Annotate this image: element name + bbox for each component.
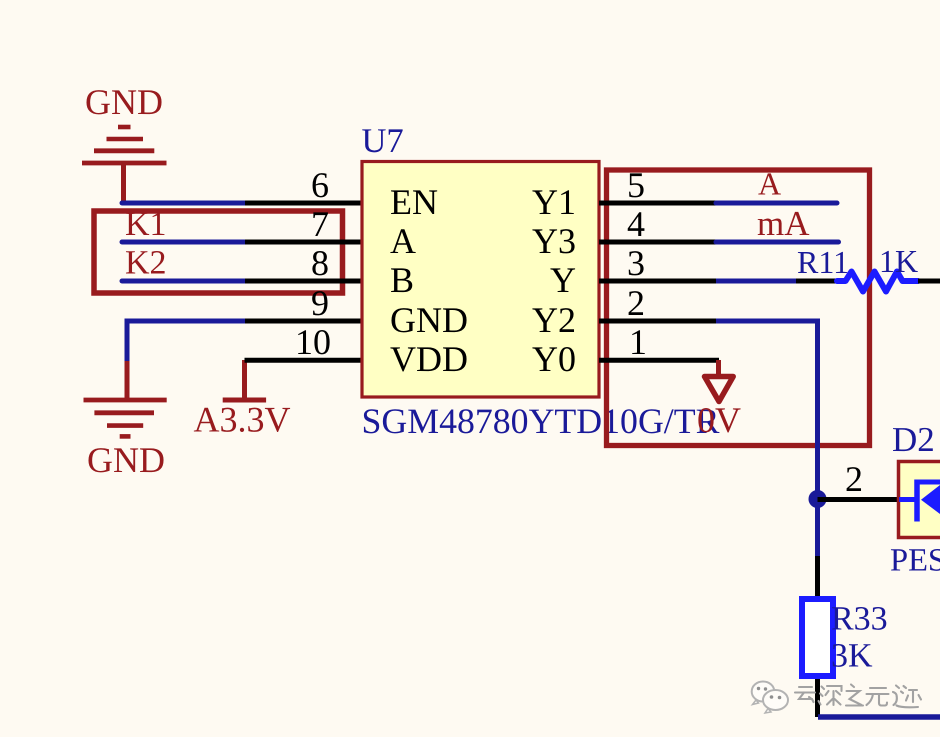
net class box around K1/K2 [94,211,343,293]
svg-text:A: A [758,166,781,202]
ground symbol GND (top-left) [82,127,167,203]
svg-text:9: 9 [311,283,329,323]
resistor R11 left lead [796,279,838,284]
power port 0V arrow symbol [705,360,734,402]
svg-text:3K: 3K [831,638,873,675]
diode D2 symbol [899,480,940,522]
junction dot [809,490,827,508]
svg-text:3: 3 [627,243,645,283]
pin 2 (Y2) black lead [599,319,716,324]
wire pin6 net blue segment [122,201,245,206]
diode D2 body [899,462,940,538]
svg-text:Y2: Y2 [532,300,576,340]
wire GND net vertical blue segment [125,319,130,364]
pin 8 (B) black lead [245,279,362,284]
svg-text:K2: K2 [125,245,167,282]
wire horizontal blue to vertical drop [716,319,818,324]
svg-text:0V: 0V [697,400,741,440]
svg-text:4: 4 [627,204,645,244]
wire black vertical through R33 [815,556,820,717]
wire net mA blue segment [716,240,839,245]
svg-text:EN: EN [390,182,438,222]
pin 9 (GND) black lead [245,319,362,324]
svg-text:SGM48780YTD10G/TR: SGM48780YTD10G/TR [362,401,720,441]
svg-text:PESD5V0: PESD5V0 [890,543,940,579]
resistor R11 zigzag [837,272,918,292]
wire black junction to D2 [818,497,898,502]
svg-text:GND: GND [390,300,468,340]
ground symbol GND (bottom-left) [84,361,167,436]
svg-text:5: 5 [627,165,645,205]
svg-text:Y0: Y0 [532,339,576,379]
pin 4 (Y3) black lead [599,240,716,245]
watermark text 云深之无迹 [795,685,921,708]
wire net A blue segment [716,201,837,206]
svg-text:Y3: Y3 [532,221,576,261]
svg-text:VDD: VDD [390,339,468,379]
svg-text:6: 6 [311,165,329,205]
resistor R33 body [802,599,833,676]
svg-text:1: 1 [629,322,647,362]
svg-text:GND: GND [87,440,165,480]
watermark logo [752,682,788,714]
pin 10 (VDD) black lead [245,358,363,363]
svg-text:10: 10 [295,322,331,362]
pin 1 (Y0) black lead [599,358,719,363]
svg-text:K1: K1 [125,206,167,243]
pin 5 (Y1) black lead [599,201,716,206]
svg-text:8: 8 [311,243,329,283]
IC U7 body [362,162,599,398]
pin 6 (EN) black lead [245,201,362,206]
svg-text:mA: mA [757,204,810,243]
svg-text:R33: R33 [831,601,888,638]
wire vertical blue down to junction [815,319,820,559]
svg-text:Y: Y [550,260,576,300]
wire to R11 blue segment [716,279,796,284]
wire GND net horizontal blue segment [127,319,245,324]
power port A3.3V symbol [223,360,266,400]
net class box (right) [607,170,870,446]
svg-text:A: A [390,221,416,261]
wire net K2 blue segment [122,279,245,284]
svg-text:U7: U7 [362,122,404,160]
svg-text:B: B [390,260,414,300]
pin 3 (Y) black lead [599,279,716,284]
svg-text:2: 2 [845,459,863,499]
svg-text:2: 2 [627,283,645,323]
svg-text:7: 7 [311,204,329,244]
pin 7 (A) black lead [245,240,362,245]
wire blue bottom horizontal [818,714,940,720]
svg-text:D2: D2 [892,420,935,459]
resistor R11 right lead to edge [918,279,940,284]
svg-text:R11: R11 [797,244,849,280]
svg-text:A3.3V: A3.3V [194,400,291,440]
svg-text:GND: GND [85,82,163,122]
svg-text:Y1: Y1 [532,182,576,222]
svg-text:1K: 1K [879,243,918,279]
wire net K1 blue segment [122,240,245,245]
